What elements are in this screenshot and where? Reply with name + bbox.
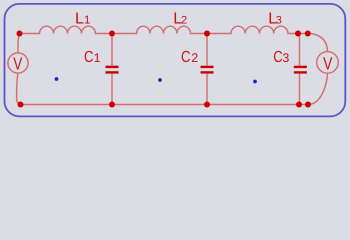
svg-text:1: 1 [84,15,90,27]
svg-text:V: V [13,53,22,73]
svg-text:2: 2 [181,15,187,27]
svg-text:C: C [181,49,190,66]
svg-text:2: 2 [191,51,198,65]
svg-text:C: C [84,49,93,66]
svg-text:V: V [323,53,332,73]
svg-text:L: L [75,11,84,28]
svg-text:3: 3 [276,15,282,27]
svg-text:C: C [273,49,282,66]
svg-text:1: 1 [94,51,101,65]
svg-text:3: 3 [282,51,289,65]
